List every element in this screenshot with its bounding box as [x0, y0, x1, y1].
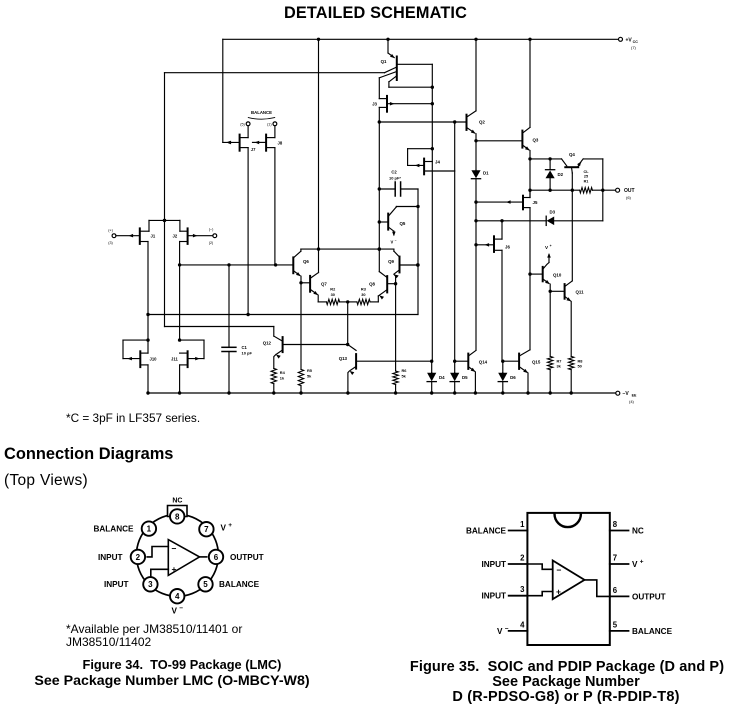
svg-text:Q8: Q8 [369, 282, 375, 287]
svg-text:CC: CC [633, 40, 639, 44]
svg-text:50: 50 [578, 364, 582, 369]
svg-text:R1: R1 [584, 179, 589, 183]
svg-text:+V: +V [626, 37, 633, 43]
svg-text:J2: J2 [173, 233, 178, 238]
svg-text:D5: D5 [462, 375, 468, 380]
svg-text:C2: C2 [391, 170, 397, 175]
svg-text:R6: R6 [402, 368, 408, 373]
svg-text:3: 3 [148, 580, 153, 589]
svg-text:J6: J6 [505, 245, 510, 250]
svg-text:Q4: Q4 [569, 152, 575, 157]
svg-text:2: 2 [520, 554, 525, 563]
svg-text:Q15: Q15 [532, 359, 541, 364]
svg-text:Q7: Q7 [321, 282, 327, 287]
svg-text:3: 3 [520, 585, 525, 594]
svg-text:−: − [395, 239, 397, 243]
svg-text:V: V [497, 627, 503, 636]
svg-text:+: + [228, 522, 232, 529]
svg-text:CL: CL [583, 170, 589, 174]
svg-text:V: V [172, 607, 178, 616]
svg-text:R2: R2 [330, 287, 336, 292]
svg-text:4: 4 [175, 592, 180, 601]
svg-text:NC: NC [172, 498, 182, 505]
svg-text:−: − [557, 565, 562, 575]
svg-text:30: 30 [331, 292, 335, 297]
svg-text:Q5: Q5 [400, 221, 406, 226]
svg-text:3k: 3k [557, 364, 562, 369]
svg-text:D3: D3 [550, 210, 556, 215]
svg-text:(1): (1) [267, 123, 272, 127]
svg-text:NC: NC [632, 527, 644, 536]
svg-text:(+): (+) [108, 228, 113, 232]
svg-text:+: + [640, 559, 644, 566]
svg-text:V: V [391, 240, 394, 245]
svg-text:(−): (−) [209, 228, 214, 232]
svg-text:R4: R4 [280, 370, 286, 375]
svg-text:(3): (3) [108, 241, 113, 245]
svg-text:BALANCE: BALANCE [466, 527, 507, 536]
svg-text:1: 1 [520, 520, 525, 529]
svg-text:J4: J4 [435, 159, 440, 164]
svg-text:−: − [172, 544, 177, 554]
svg-text:V: V [632, 560, 638, 569]
svg-text:(7): (7) [631, 45, 637, 50]
svg-text:30: 30 [361, 292, 365, 297]
svg-text:Q12: Q12 [263, 340, 272, 345]
svg-text:OUT: OUT [624, 188, 635, 194]
svg-text:R3: R3 [361, 287, 367, 292]
svg-text:J7: J7 [251, 147, 256, 152]
svg-text:Q14: Q14 [479, 359, 488, 364]
svg-text:C1: C1 [242, 345, 248, 350]
svg-text:Q10: Q10 [553, 272, 562, 277]
svg-text:D1: D1 [483, 171, 489, 176]
svg-text:J3: J3 [372, 102, 377, 107]
svg-text:10 pF*: 10 pF* [389, 175, 401, 180]
svg-text:1: 1 [147, 525, 152, 534]
svg-text:D2: D2 [558, 172, 564, 177]
svg-text:2: 2 [136, 553, 141, 562]
svg-text:(5): (5) [240, 123, 245, 127]
svg-text:BALANCE: BALANCE [251, 110, 272, 115]
svg-text:D6: D6 [510, 375, 516, 380]
svg-text:D4: D4 [439, 375, 445, 380]
svg-text:−V: −V [623, 391, 630, 397]
svg-text:+: + [550, 244, 552, 248]
svg-text:+: + [172, 564, 177, 574]
svg-text:INPUT: INPUT [481, 560, 506, 569]
svg-text:(2): (2) [209, 241, 214, 245]
svg-text:Q6: Q6 [303, 259, 309, 264]
svg-text:6: 6 [214, 553, 219, 562]
svg-text:(6): (6) [626, 195, 632, 200]
svg-text:Q9: Q9 [388, 259, 394, 264]
svg-text:7: 7 [613, 554, 617, 563]
svg-text:J8: J8 [278, 140, 283, 145]
svg-text:−: − [179, 605, 183, 612]
svg-text:−: − [505, 625, 509, 632]
svg-text:8: 8 [613, 520, 618, 529]
svg-text:J10: J10 [150, 356, 158, 361]
svg-text:Q3: Q3 [533, 138, 539, 143]
svg-text:V: V [221, 524, 227, 533]
svg-text:J11: J11 [171, 356, 178, 361]
svg-text:Q2: Q2 [479, 120, 485, 125]
svg-text:6: 6 [613, 586, 618, 595]
svg-text:INPUT: INPUT [98, 553, 123, 562]
svg-text:J5: J5 [533, 200, 538, 205]
svg-text:R7: R7 [557, 358, 562, 363]
svg-text:5k: 5k [307, 373, 312, 378]
svg-text:INPUT: INPUT [481, 592, 506, 601]
svg-text:(4): (4) [629, 399, 635, 404]
svg-text:+: + [556, 587, 561, 597]
svg-text:25: 25 [584, 175, 588, 179]
svg-text:5k: 5k [402, 373, 407, 378]
svg-text:V: V [545, 245, 549, 250]
svg-text:10 pF: 10 pF [242, 351, 253, 356]
svg-text:8: 8 [175, 512, 180, 521]
svg-text:Q13: Q13 [339, 356, 348, 361]
svg-text:7: 7 [204, 525, 209, 534]
svg-text:1k: 1k [280, 375, 285, 380]
svg-text:R8: R8 [578, 358, 584, 363]
svg-text:EE: EE [632, 394, 637, 398]
svg-text:INPUT: INPUT [104, 580, 129, 589]
svg-text:R5: R5 [307, 368, 313, 373]
svg-text:Q1: Q1 [381, 59, 387, 64]
svg-text:OUTPUT: OUTPUT [632, 592, 666, 601]
svg-text:BALANCE: BALANCE [219, 580, 260, 589]
svg-text:OUTPUT: OUTPUT [230, 553, 264, 562]
svg-text:Q11: Q11 [576, 289, 585, 294]
svg-text:4: 4 [520, 620, 525, 629]
svg-text:5: 5 [203, 580, 208, 589]
svg-text:BALANCE: BALANCE [632, 627, 673, 636]
svg-text:5: 5 [613, 620, 618, 629]
svg-text:J1: J1 [151, 233, 156, 238]
svg-text:BALANCE: BALANCE [93, 525, 134, 534]
